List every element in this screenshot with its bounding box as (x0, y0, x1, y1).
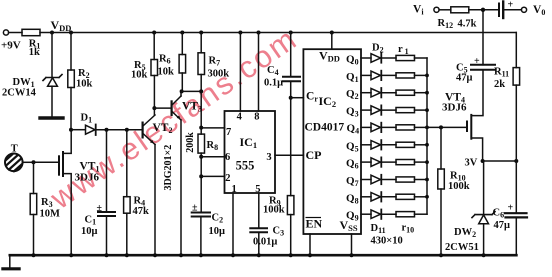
diode D1 (71, 125, 142, 136)
ground symbol bottom left (3, 255, 19, 269)
svg-text:Q2: Q2 (346, 88, 359, 101)
resistor r6 (396, 142, 427, 147)
svg-text:VDD: VDD (319, 49, 340, 64)
resistor r1 (396, 55, 427, 60)
svg-text:47μ: 47μ (494, 220, 511, 231)
svg-text:D11: D11 (371, 223, 386, 235)
svg-text:Cr: Cr (306, 91, 318, 104)
diode D7 row Q5 (361, 140, 396, 149)
resistor R11 (513, 33, 520, 162)
bus node dots (425, 74, 429, 199)
svg-text:r 1: r 1 (398, 44, 409, 56)
resistor R10 (438, 127, 445, 255)
resistor R7 (198, 33, 205, 135)
common bus wire (426, 58, 428, 214)
capacitor C6 (505, 161, 527, 255)
node pin2 junction (199, 174, 203, 178)
node dots on VDD rail (50, 31, 334, 35)
transistor VT2 (143, 115, 155, 255)
resistor r9 (396, 194, 427, 199)
wire to IC1 pin 6 (201, 156, 224, 158)
svg-text:430×10: 430×10 (371, 236, 403, 247)
resistor R5 (151, 33, 158, 116)
svg-text:10k: 10k (131, 70, 148, 81)
svg-text:r10: r10 (402, 223, 415, 235)
svg-text:Q9: Q9 (346, 210, 359, 223)
IC2 CD4017 box (303, 49, 361, 234)
svg-text:100k: 100k (263, 205, 285, 216)
wire IC1 pin 1 to ground (232, 193, 234, 255)
resistor R8 (198, 134, 205, 212)
svg-text:IC2: IC2 (319, 94, 337, 109)
svg-text:±: ± (97, 203, 103, 214)
svg-text:+: + (474, 56, 480, 67)
svg-text:0.01μ: 0.01μ (253, 237, 277, 248)
svg-text:3V: 3V (465, 158, 478, 169)
zener diode DW1 (43, 75, 62, 117)
svg-text:CD4017: CD4017 (305, 122, 345, 134)
diode D11 row Q9 (361, 210, 396, 219)
svg-text:Q6: Q6 (346, 158, 359, 171)
transistor VT3 (172, 91, 181, 255)
resistor R9 (287, 196, 294, 256)
svg-text:VDD: VDD (51, 18, 72, 33)
diode D9 row Q7 (361, 175, 396, 184)
svg-text:0.1μ: 0.1μ (264, 78, 283, 89)
svg-text:C6: C6 (493, 208, 505, 220)
svg-text:Q7: Q7 (346, 175, 359, 188)
svg-text:3: 3 (266, 152, 271, 163)
svg-text:47μ: 47μ (456, 73, 473, 84)
svg-text:4.7k: 4.7k (458, 19, 477, 30)
svg-text:8: 8 (254, 111, 259, 122)
node A (VT1 drain / D1 anode) (69, 128, 73, 132)
svg-text:10k: 10k (158, 67, 175, 78)
svg-text:2: 2 (225, 173, 230, 184)
svg-text:6: 6 (225, 152, 230, 163)
resistor R12 (451, 7, 498, 13)
capacitor C3 (250, 228, 267, 255)
svg-text:Vi: Vi (413, 4, 424, 17)
VDD top rail wire (40, 32, 516, 34)
node VT2 collector / VT3 base (152, 106, 156, 110)
zener diode DW1 wire from rail (51, 33, 53, 77)
svg-text:R8: R8 (207, 140, 219, 152)
transistor VT4 (FET 3DJ6) (467, 71, 483, 162)
svg-text:R3: R3 (41, 197, 53, 209)
wire VT3 collector to R7/R8 column (182, 90, 202, 92)
node C4 / Cr junction (289, 96, 293, 100)
svg-text:10μ: 10μ (209, 226, 226, 237)
svg-text:C1: C1 (85, 215, 97, 227)
svg-text:V0: V0 (533, 4, 545, 17)
node pin6 junction (199, 155, 203, 159)
resistor R6 (179, 33, 186, 92)
svg-text:555: 555 (236, 159, 255, 173)
terminal Vo (521, 7, 526, 12)
svg-text:+: + (508, 0, 514, 11)
wire bus to VT4 gate (427, 126, 466, 128)
wire IC1 pin 4 to rail (239, 33, 241, 112)
capacitor C5 (471, 12, 495, 70)
svg-text:300k: 300k (208, 69, 230, 80)
resistor r3 (396, 90, 427, 95)
svg-text:EN: EN (306, 217, 323, 231)
diode D5 row Q3 (361, 105, 396, 114)
diode D6 row Q4 (361, 123, 396, 132)
svg-text:10μ: 10μ (81, 226, 98, 237)
svg-text:1k: 1k (29, 47, 40, 58)
node 3V right (514, 159, 518, 163)
resistor R3 (30, 162, 37, 255)
wire to IC2 Cr (291, 97, 304, 99)
svg-text:3DJ6: 3DJ6 (442, 102, 467, 114)
resistor r7 (396, 160, 427, 165)
microphone T (5, 154, 34, 172)
wire to IC1 pin 7 (201, 127, 224, 129)
capacitor C4 (283, 33, 300, 196)
node C1 junction (105, 128, 109, 132)
svg-text:Q0: Q0 (346, 54, 359, 67)
svg-text:100k: 100k (448, 181, 470, 192)
zener diode DW2 (472, 161, 495, 255)
wire IC1 pin 3 to IC2 CP (275, 154, 303, 156)
node T / R3 / VT1 gate (32, 160, 36, 164)
terminal Vi (434, 7, 451, 12)
bottom ground rail (10, 254, 517, 257)
capacitor C1 (98, 130, 115, 256)
svg-text:1: 1 (232, 184, 237, 195)
svg-text:IC1: IC1 (240, 135, 258, 150)
wire to IC1 pin 2 (201, 175, 224, 177)
svg-text:±: ± (192, 203, 198, 214)
terminal +9V input (3, 30, 22, 35)
svg-text:Q4: Q4 (347, 123, 360, 136)
svg-text:R6: R6 (159, 54, 171, 66)
resistor r5 (396, 125, 427, 130)
svg-text:C2: C2 (212, 213, 224, 225)
capacitor C2 (192, 213, 210, 256)
watermark www.elecfans.com (43, 21, 304, 217)
svg-text:CP: CP (306, 148, 322, 162)
svg-text:2k: 2k (494, 79, 505, 90)
svg-text:R7: R7 (209, 56, 221, 68)
svg-text:Q8: Q8 (346, 192, 359, 205)
svg-text:DW2: DW2 (454, 227, 476, 239)
svg-text:10M: 10M (40, 209, 61, 220)
wire IC2 EN to ground (309, 234, 311, 255)
svg-text:Q5: Q5 (346, 140, 359, 153)
wire IC2 VDD to rail (331, 33, 333, 50)
svg-text:10k: 10k (76, 78, 93, 89)
svg-text:D2: D2 (372, 43, 384, 55)
svg-text:5: 5 (255, 184, 260, 195)
diode D3 row Q1 (361, 71, 396, 80)
svg-text:D1: D1 (81, 113, 93, 125)
svg-text:T: T (11, 144, 18, 155)
diode D8 row Q6 (361, 157, 396, 166)
wire IC1 pin 5 to C3 (258, 193, 260, 228)
svg-text:3DJ6: 3DJ6 (75, 172, 100, 184)
3V rail wire (483, 160, 517, 162)
resistor r2 (396, 73, 427, 78)
wire to VT1 gate (34, 161, 59, 163)
svg-text:2CW51: 2CW51 (445, 242, 479, 253)
svg-text:4: 4 (237, 112, 243, 123)
svg-text:47k: 47k (133, 206, 150, 217)
svg-text:200k: 200k (185, 132, 196, 153)
svg-text:Q1: Q1 (346, 71, 359, 84)
diode D10 row Q8 (361, 192, 396, 201)
svg-text:R12: R12 (438, 18, 454, 30)
resistor R1 (22, 29, 40, 35)
op-amp IC1 555 box (225, 111, 276, 193)
node output junction (481, 8, 485, 12)
diode D4 row Q2 (361, 88, 396, 97)
node R10 junction (439, 125, 443, 129)
resistor r8 (396, 177, 427, 182)
wire IC1 pin 8 to rail (258, 33, 260, 112)
node VT3 collector / R6 (180, 89, 184, 93)
diode D2 row Q0 (361, 53, 396, 62)
node pin7 junction (199, 89, 203, 129)
svg-text:3DG201×2: 3DG201×2 (163, 145, 174, 191)
wire IC2 VSS to ground (351, 234, 353, 255)
svg-text:R11: R11 (494, 67, 509, 79)
resistor R4 (124, 130, 131, 256)
node 3V left (481, 159, 485, 163)
svg-text:+9V: +9V (1, 40, 21, 52)
node R4 junction (125, 128, 129, 132)
ground node dots (32, 253, 486, 257)
ground bar for DW1 (40, 116, 63, 119)
svg-text:Q3: Q3 (346, 106, 359, 119)
EN overline (306, 217, 322, 219)
resistor r4 (396, 108, 427, 113)
resistor R2 (68, 33, 75, 130)
svg-text:7: 7 (226, 127, 231, 138)
wire VT3 base (154, 107, 170, 109)
output capacitor (499, 2, 521, 19)
resistor r10 (396, 212, 427, 217)
svg-text:2CW14: 2CW14 (2, 88, 37, 99)
svg-text:+: + (508, 203, 514, 214)
transistor VT1 (FET 3DJ6) (59, 130, 71, 256)
